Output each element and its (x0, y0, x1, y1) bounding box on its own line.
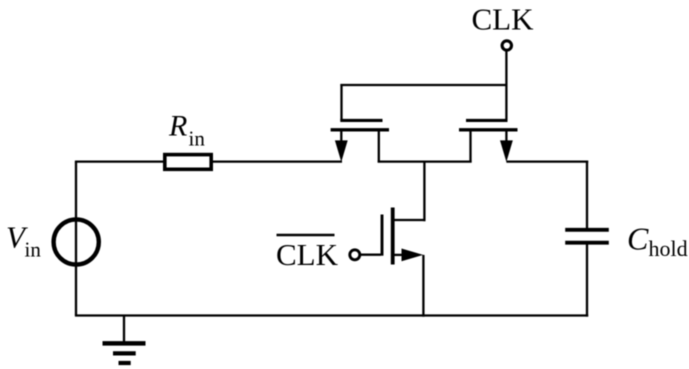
M2 gate bar (466, 119, 508, 122)
svg-text:CLK: CLK (472, 2, 535, 37)
M3 drain connection (393, 219, 426, 221)
wire M3 drain vertical (423, 162, 425, 222)
M3 gate wire (361, 254, 381, 256)
wire top-right horizontal (M2 source to Chold) (506, 160, 588, 162)
voltage source Vin (54, 219, 99, 264)
M1 gate lead (340, 84, 342, 120)
transistor M3 (hold switch) (361, 208, 426, 317)
capacitor Chold (565, 230, 609, 243)
M3 channel bar (391, 208, 395, 265)
M2 source arrow (505, 131, 507, 143)
svg-text:CLK: CLK (276, 237, 339, 272)
wire gate bus (CLK to both gates) (340, 84, 506, 86)
svg-text:in: in (189, 127, 206, 151)
wire bottom rail (75, 314, 588, 316)
resistor Rin (165, 155, 211, 170)
label Chold (627, 220, 688, 260)
M2 drain lead (469, 131, 471, 162)
CLKbar terminal circle (350, 250, 360, 260)
svg-text:R: R (168, 110, 187, 143)
M2 gate lead (505, 52, 507, 121)
label Rin (168, 110, 205, 151)
wire top-left horizontal (Vin to M1 source) (75, 160, 342, 162)
wire right vertical lower (Chold to ground rail) (586, 244, 588, 317)
ground (103, 316, 146, 364)
M1 drain lead (378, 131, 380, 162)
M3 source vertical (422, 255, 424, 317)
label Vin (6, 220, 41, 262)
CLK terminal circle (502, 41, 511, 50)
svg-text:in: in (25, 238, 42, 262)
wire inner node (between M1 and M2 drains) (378, 160, 472, 162)
svg-text:C: C (627, 220, 649, 256)
M1 channel bar (331, 128, 389, 131)
transistor M2 (right pass transistor) (459, 52, 518, 163)
transistor M1 (left pass transistor) (331, 84, 389, 162)
wire left vertical (Vin branch) (75, 162, 77, 316)
M1 gate bar (340, 119, 382, 122)
M1 source arrow (340, 131, 342, 143)
wire right vertical upper (to Chold top plate) (586, 161, 588, 230)
M2 channel bar (459, 128, 518, 131)
label CLKbar with overline (276, 235, 339, 272)
svg-text:hold: hold (649, 236, 688, 261)
M3 gate bar (381, 215, 384, 256)
M3 source arrow (393, 254, 404, 256)
